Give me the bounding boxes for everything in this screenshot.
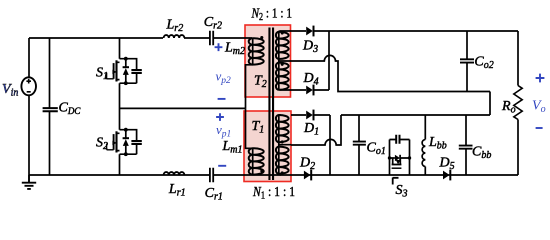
svg-text:N2 : 1 : 1: N2 : 1 : 1 (251, 7, 292, 24)
svg-text:N1 : 1 : 1: N1 : 1 : 1 (252, 185, 295, 201)
